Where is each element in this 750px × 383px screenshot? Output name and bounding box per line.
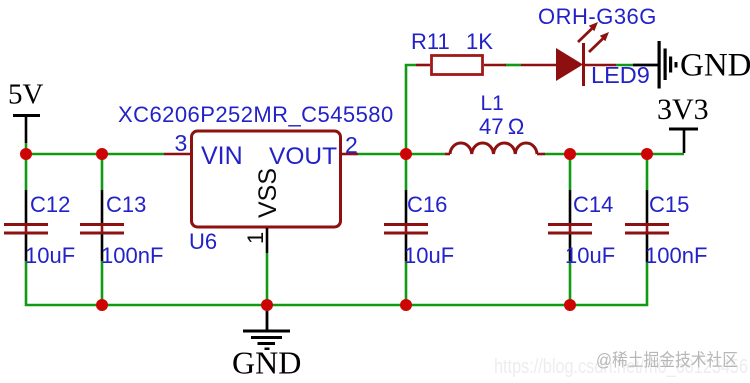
svg-text:U6: U6	[189, 229, 217, 254]
ground (bottom)	[232, 305, 301, 381]
capacitor C15	[625, 154, 707, 268]
svg-text:3V3: 3V3	[657, 93, 709, 126]
svg-text:VIN: VIN	[201, 142, 243, 170]
svg-text:XC6206P252MR_C545580: XC6206P252MR_C545580	[118, 102, 394, 127]
watermark community text	[596, 350, 738, 370]
capacitor C12	[4, 154, 75, 268]
power flag 5V	[8, 79, 44, 155]
svg-text:GND: GND	[680, 48, 750, 84]
wire: C14 junction to C15 junction	[570, 153, 647, 156]
op-amp U6 regulator box	[189, 131, 341, 254]
capacitor C14	[548, 154, 615, 305]
resistor R11	[411, 29, 506, 75]
svg-text:100nF: 100nF	[645, 243, 707, 268]
junction C14 top	[564, 148, 576, 160]
svg-text:C16: C16	[407, 192, 447, 217]
svg-text:@稀土掘金技术社区: @稀土掘金技术社区	[596, 350, 738, 370]
wire: L1 right pin to C14 junction	[545, 153, 570, 156]
svg-text:5V: 5V	[8, 79, 44, 111]
inductor L1	[445, 92, 545, 154]
pin 2 lead	[342, 153, 358, 156]
svg-text:L1: L1	[481, 92, 504, 115]
pin 1 lead	[266, 228, 269, 305]
svg-text:GND: GND	[232, 345, 301, 381]
junction C13 top	[96, 148, 108, 160]
svg-text:C13: C13	[106, 192, 146, 217]
power flag 3V3	[657, 93, 709, 153]
LED LED9	[521, 22, 650, 88]
svg-text:2: 2	[345, 132, 358, 158]
junction node A (VOUT/R11/L1/C16)	[400, 148, 412, 160]
junction C16 bottom	[400, 299, 412, 311]
svg-text:100nF: 100nF	[101, 243, 163, 268]
svg-text:C12: C12	[30, 192, 70, 217]
svg-text:C15: C15	[649, 192, 689, 217]
pin 3 lead	[164, 153, 190, 156]
svg-text:R11: R11	[411, 29, 450, 54]
junction C14 bottom	[564, 299, 576, 311]
svg-text:VSS: VSS	[254, 168, 282, 218]
svg-text:47 Ω: 47 Ω	[479, 114, 524, 139]
pin 3 number	[175, 130, 188, 156]
watermark url text	[494, 356, 748, 378]
svg-text:C14: C14	[573, 192, 613, 217]
wire: bottom ground rail	[26, 261, 647, 305]
wire: C15 junction to 3V3 corner	[647, 153, 684, 156]
svg-text:1K: 1K	[466, 29, 493, 54]
junction 5V/C12	[20, 148, 32, 160]
wire: R11 branch vertical	[406, 65, 416, 154]
capacitor C16	[384, 154, 454, 305]
svg-text:VOUT: VOUT	[269, 143, 337, 170]
junction C15/3V3	[641, 148, 653, 160]
capacitor C13	[80, 154, 163, 305]
label ORH-G36G	[538, 4, 657, 29]
junction C13 bottom	[96, 299, 108, 311]
label U6 part number	[118, 102, 394, 127]
wire: R11 to LED segment	[505, 64, 521, 67]
svg-text:10uF: 10uF	[25, 243, 75, 268]
wire: top rail left (5V junction to pin3 lead)	[26, 153, 164, 156]
ground (right, sideways)	[633, 41, 750, 89]
svg-text:10uF: 10uF	[565, 243, 615, 268]
wire: junction A to L1 left pin	[406, 153, 445, 156]
pin 1 number	[243, 232, 268, 244]
pin 2 number	[345, 132, 358, 158]
junction VSS/ground	[261, 299, 273, 311]
svg-text:3: 3	[175, 130, 188, 156]
wire: pin2 to junction A	[358, 153, 406, 156]
svg-text:ORH-G36G: ORH-G36G	[538, 4, 657, 29]
svg-text:10uF: 10uF	[404, 243, 454, 268]
svg-text:1: 1	[243, 232, 268, 244]
wire: LED to GND segment	[616, 64, 633, 67]
